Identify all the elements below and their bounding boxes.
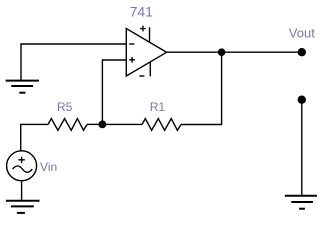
source V1 plus polarity mark — [18, 157, 25, 164]
wire: source V1 down to bottom-left ground — [21, 181, 23, 201]
svg-text:Vin: Vin — [40, 160, 57, 174]
wire: right branch node down to bottom-right ground — [301, 100, 303, 196]
op-amp U1 inverting input minus sign — [129, 43, 134, 45]
ground (bottom-left) — [6, 201, 40, 213]
node dot: right branch top — [298, 96, 306, 104]
op-amp U1 positive supply pin — [149, 27, 151, 42]
wire: feedback from output junction down and left to R1 — [181, 52, 222, 124]
junction dot: output feedback node — [218, 48, 226, 56]
ground (bottom-right) — [285, 196, 317, 209]
op-amp U1 positive supply plus label — [140, 26, 146, 32]
svg-text:Vout: Vout — [289, 26, 315, 41]
wire: node A to resistor R1 — [102, 123, 142, 125]
svg-text:R1: R1 — [150, 100, 166, 114]
wire: source V1 up and right to resistor R5 — [21, 124, 48, 151]
resistor R1 — [142, 119, 181, 131]
wire: op-amp output to Vout node — [167, 51, 302, 53]
op-amp U1 negative supply pin — [149, 62, 151, 77]
op-amp U1 non-inverting input plus sign — [129, 57, 135, 63]
source V1 sine wave — [13, 166, 33, 172]
wire: resistor R5 to node A — [87, 123, 102, 125]
svg-text:R5: R5 — [57, 100, 73, 114]
resistor R5 — [48, 119, 87, 131]
node dot: Vout terminal — [298, 48, 306, 56]
svg-text:741: 741 — [130, 3, 154, 19]
wire: node A up to non-inverting input — [102, 60, 126, 124]
ground (top-left) — [6, 81, 39, 93]
op-amp U1 741 triangle — [126, 29, 166, 77]
op-amp U1 negative supply minus label — [139, 75, 144, 77]
source V1 (Vin) circle — [7, 151, 37, 181]
junction dot: node A (R5/R1 junction) — [99, 121, 107, 129]
wire: top-left ground up to op-amp inverting input — [21, 44, 126, 80]
